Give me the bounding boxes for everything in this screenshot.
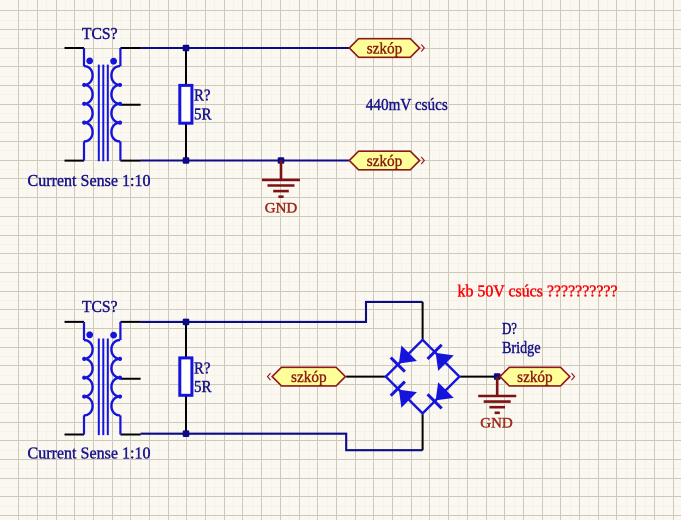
note 440mV csúcs bbox=[366, 95, 448, 114]
svg-text:GND: GND bbox=[480, 415, 513, 431]
resistor R2 pin 1 bbox=[185, 322, 187, 358]
value 5R (top resistor) bbox=[194, 104, 212, 123]
designator D? (bridge) bbox=[502, 319, 517, 338]
transformer TCS?-top: core bbox=[99, 65, 108, 162]
port szkóp (bottom left, net 4 input) bbox=[268, 367, 346, 386]
svg-text:TCS?: TCS? bbox=[82, 24, 118, 43]
transformer TCS?-top: primary winding (left coil) bbox=[82, 48, 92, 161]
svg-text:R?: R? bbox=[194, 358, 211, 377]
bridge diode D-a (top-left) bbox=[391, 345, 417, 371]
svg-text:GND: GND bbox=[265, 200, 298, 216]
transformer TCS?-bot: pin 3 (top-right) bbox=[120, 321, 140, 323]
svg-text:szkóp: szkóp bbox=[367, 153, 403, 170]
bridge D? diamond outline bbox=[386, 340, 460, 414]
port szkóp (top, net 1) bbox=[349, 39, 424, 58]
designator R? (top resistor) bbox=[194, 86, 211, 105]
svg-text:Current Sense 1:10: Current Sense 1:10 bbox=[28, 171, 151, 190]
transformer TCS?-bot: core bbox=[99, 339, 108, 436]
svg-text:szkóp: szkóp bbox=[367, 41, 403, 58]
transformer TCS?-bot: primary winding (left coil) bbox=[82, 322, 92, 435]
junction: bridge right / port / gnd (net 5) bbox=[494, 373, 501, 380]
bridge diode D-d (bottom-right) bbox=[428, 382, 454, 408]
svg-text:R?: R? bbox=[194, 86, 211, 105]
junction: R1 bottom / net 2 bbox=[183, 157, 190, 164]
wire: bottom transformer pin4 to bridge bottom (net 4) bbox=[141, 434, 423, 451]
resistor R2 pin 2 bbox=[185, 395, 187, 433]
resistor R1 pin 2 bbox=[185, 123, 187, 160]
bridge D? pin: left bbox=[346, 376, 386, 378]
label GND (top) bbox=[265, 200, 298, 216]
transformer TCS?-top: centre-tap pin (stub) bbox=[120, 104, 141, 106]
ground symbol (top circuit) bbox=[262, 161, 300, 197]
ground symbol (bottom circuit) bbox=[478, 377, 516, 413]
wire: top transformer pin3 to port (net 1) bbox=[141, 47, 350, 49]
bridge diode D-c (top-right) bbox=[428, 345, 454, 371]
svg-text:TCS?: TCS? bbox=[82, 297, 118, 316]
transformer TCS?-top: pin 1 (top-left, stub) bbox=[65, 47, 85, 49]
designator R? (bottom resistor) bbox=[194, 358, 211, 377]
designator TCS? (top transformer) bbox=[82, 24, 118, 43]
svg-text:Current Sense 1:10: Current Sense 1:10 bbox=[28, 443, 151, 462]
label Bridge bbox=[502, 338, 541, 357]
transformer TCS?-top: polarity dots bbox=[86, 58, 117, 65]
svg-text:Bridge: Bridge bbox=[502, 338, 541, 357]
label Current Sense 1:10 (bottom) bbox=[28, 443, 151, 462]
svg-text:kb 50V csúcs ??????????: kb 50V csúcs ?????????? bbox=[458, 282, 618, 301]
transformer TCS?-top: pin 4 (bottom-right) bbox=[120, 160, 140, 162]
svg-text:szkóp: szkóp bbox=[291, 369, 327, 386]
bridge diode D-b (bottom-left) bbox=[391, 382, 417, 408]
note kb 50V csúcs ?????????? bbox=[458, 282, 618, 301]
port szkóp (bottom right, net 5) bbox=[500, 367, 575, 386]
bridge D? pin: bottom bbox=[422, 413, 424, 450]
resistor R2 body bbox=[180, 358, 192, 395]
resistor R1 body bbox=[180, 85, 192, 123]
transformer TCS?-top: pin 3 (top-right) bbox=[120, 47, 140, 49]
transformer TCS?-top: secondary winding (right coil) bbox=[111, 48, 122, 161]
label GND (bottom) bbox=[480, 415, 513, 431]
transformer TCS?-bot: pin 1 (top-left, stub) bbox=[65, 321, 85, 323]
transformer TCS?-bot: pin 2 (bottom-left, stub) bbox=[65, 434, 85, 436]
label Current Sense 1:10 (top) bbox=[28, 171, 151, 190]
svg-text:5R: 5R bbox=[194, 104, 212, 123]
transformer TCS?-bot: secondary winding (right coil) bbox=[111, 322, 122, 435]
wire: bottom transformer pin3 to bridge top (net 3) bbox=[141, 302, 423, 322]
svg-text:D?: D? bbox=[502, 319, 517, 338]
svg-text:szkóp: szkóp bbox=[517, 369, 553, 386]
transformer TCS?-bot: polarity dots bbox=[86, 331, 117, 338]
junction: GND tap on net 2 bbox=[278, 157, 285, 164]
resistor R1 pin 1 bbox=[185, 48, 187, 85]
junction: R2 bottom / net 4 bbox=[183, 430, 190, 437]
bridge D? pin: top bbox=[422, 302, 424, 340]
junction: R1 top / net 1 bbox=[183, 45, 190, 52]
svg-text:5R: 5R bbox=[194, 377, 212, 396]
wire: top transformer pin4 to port (net 2) bbox=[141, 159, 350, 161]
designator TCS? (bottom transformer) bbox=[82, 297, 118, 316]
junction: R2 top / net 3 bbox=[183, 319, 190, 326]
svg-text:440mV csúcs: 440mV csúcs bbox=[366, 95, 448, 114]
transformer TCS?-top: pin 2 (bottom-left, stub) bbox=[65, 160, 85, 162]
transformer TCS?-bot: pin 4 (bottom-right) bbox=[120, 434, 140, 436]
transformer TCS?-bot: centre-tap pin (stub) bbox=[120, 378, 141, 380]
value 5R (bottom resistor) bbox=[194, 377, 212, 396]
bridge D? pin: right bbox=[459, 376, 497, 378]
port szkóp (top, net 2) bbox=[349, 151, 424, 170]
